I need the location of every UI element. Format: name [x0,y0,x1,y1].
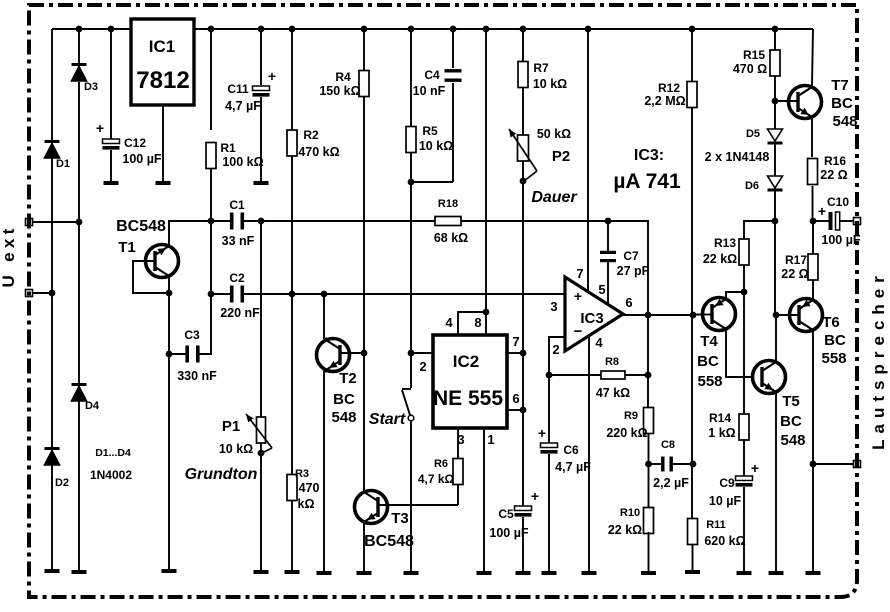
svg-text:548: 548 [331,409,356,426]
svg-text:22 Ω: 22 Ω [781,267,808,281]
svg-text:5: 5 [598,282,605,297]
svg-text:2: 2 [552,342,559,357]
svg-text:470 kΩ: 470 kΩ [298,145,339,159]
svg-text:R8: R8 [605,356,619,368]
svg-text:548: 548 [780,432,805,449]
svg-text:kΩ: kΩ [298,497,315,511]
svg-text:C1: C1 [229,198,245,212]
svg-text:558: 558 [697,373,722,390]
svg-text:22 kΩ: 22 kΩ [703,252,737,266]
svg-text:100 µF: 100 µF [489,526,529,540]
svg-text:T3: T3 [391,510,409,527]
svg-text:470: 470 [299,481,320,495]
svg-text:1: 1 [487,432,494,447]
svg-text:D1: D1 [56,158,70,170]
svg-text:Dauer: Dauer [531,189,577,206]
svg-text:220 kΩ: 220 kΩ [606,426,647,440]
svg-text:R14: R14 [709,411,731,425]
svg-text:C8: C8 [661,439,675,451]
svg-text:7: 7 [512,334,519,349]
svg-text:T7: T7 [831,77,849,94]
svg-text:620 kΩ: 620 kΩ [704,534,745,548]
svg-text:470 Ω: 470 Ω [733,62,767,76]
svg-text:4: 4 [445,315,453,330]
svg-text:R5: R5 [422,124,438,138]
svg-text:47 kΩ: 47 kΩ [596,386,630,400]
svg-text:33 nF: 33 nF [222,234,255,248]
svg-text:R12: R12 [658,81,680,95]
svg-text:D3: D3 [84,81,98,93]
svg-text:BC: BC [831,95,853,112]
svg-text:BC: BC [333,391,355,408]
svg-text:10 kΩ: 10 kΩ [533,77,567,91]
svg-text:7812: 7812 [136,67,189,94]
svg-text:+: + [574,288,582,304]
svg-text:1 kΩ: 1 kΩ [708,426,735,440]
svg-text:+: + [268,68,276,84]
svg-text:+: + [751,460,759,476]
svg-text:D6: D6 [745,180,759,192]
svg-text:C7: C7 [623,249,639,263]
svg-text:4,7 µF: 4,7 µF [555,460,591,474]
svg-text:22 kΩ: 22 kΩ [608,523,642,537]
svg-text:2: 2 [419,359,426,374]
svg-text:R16: R16 [824,154,846,168]
svg-text:R10: R10 [620,507,640,519]
svg-text:R18: R18 [438,198,458,210]
svg-text:+: + [818,203,826,219]
svg-text:+: + [538,425,546,441]
svg-text:R6: R6 [434,458,448,470]
svg-text:R7: R7 [533,61,549,75]
svg-text:4,7 kΩ: 4,7 kΩ [418,472,455,486]
svg-text:R1: R1 [220,141,236,155]
svg-text:C4: C4 [424,68,440,82]
svg-text:C9: C9 [719,476,735,490]
svg-text:Grundton: Grundton [185,466,258,483]
svg-text:C5: C5 [498,507,514,521]
svg-text:IC2: IC2 [453,352,479,371]
svg-text:NE 555: NE 555 [433,387,503,410]
svg-text:BC548: BC548 [364,533,414,550]
svg-text:R15: R15 [743,48,765,62]
svg-text:BC: BC [824,332,846,349]
svg-text:IC3:: IC3: [634,147,664,164]
svg-text:10 kΩ: 10 kΩ [219,442,253,456]
svg-text:−: − [574,323,583,340]
svg-text:548: 548 [832,113,857,130]
svg-text:T5: T5 [782,393,800,410]
svg-text:T2: T2 [339,370,357,387]
svg-text:2,2 µF: 2,2 µF [653,476,689,490]
svg-text:R9: R9 [624,410,638,422]
svg-text:R17: R17 [785,253,807,267]
svg-text:IC3: IC3 [580,310,603,327]
svg-text:Lautsprecher: Lautsprecher [869,270,888,450]
svg-text:6: 6 [625,295,632,310]
svg-text:558: 558 [821,350,846,367]
svg-text:R11: R11 [706,519,726,531]
svg-text:R13: R13 [714,236,736,250]
svg-text:BC: BC [780,413,802,430]
svg-text:D5: D5 [746,128,760,140]
svg-text:+: + [531,488,539,504]
svg-text:1N4002: 1N4002 [90,468,132,482]
svg-text:T4: T4 [700,333,718,350]
svg-text:68 kΩ: 68 kΩ [434,231,468,245]
svg-text:+: + [96,120,104,136]
svg-text:100 kΩ: 100 kΩ [222,155,263,169]
svg-text:D4: D4 [85,400,100,412]
svg-text:C10: C10 [827,195,849,209]
svg-text:4: 4 [595,335,603,350]
svg-text:7: 7 [576,266,583,281]
svg-text:P2: P2 [552,148,570,165]
svg-text:100 µF: 100 µF [122,152,162,166]
svg-text:330 nF: 330 nF [177,369,217,383]
svg-text:D2: D2 [55,477,69,489]
svg-text:P1: P1 [222,418,240,435]
svg-text:BC548: BC548 [116,218,166,235]
svg-text:10 µF: 10 µF [709,494,742,508]
svg-text:R2: R2 [303,128,319,142]
svg-text:10 nF: 10 nF [413,84,446,98]
svg-text:BC: BC [697,353,719,370]
svg-text:C12: C12 [124,136,146,150]
svg-text:4,7 µF: 4,7 µF [225,99,261,113]
svg-text:C6: C6 [563,443,579,457]
svg-text:T1: T1 [118,239,136,256]
svg-text:100 µF: 100 µF [821,233,861,247]
svg-text:C2: C2 [229,271,245,285]
svg-text:C11: C11 [227,82,249,96]
svg-text:U ext: U ext [0,224,18,287]
svg-text:3: 3 [457,432,464,447]
svg-text:µA 741: µA 741 [613,170,681,193]
svg-text:C3: C3 [184,328,200,342]
svg-text:R4: R4 [335,70,351,84]
svg-text:22 Ω: 22 Ω [820,168,847,182]
svg-text:3: 3 [550,299,557,314]
svg-text:27 pF: 27 pF [617,264,650,278]
svg-text:Start: Start [369,411,406,428]
svg-text:2,2 MΩ: 2,2 MΩ [644,94,685,108]
svg-text:T6: T6 [822,314,840,331]
svg-text:10 kΩ: 10 kΩ [419,139,453,153]
svg-text:R3: R3 [295,468,309,480]
svg-text:8: 8 [474,315,481,330]
svg-text:D1...D4: D1...D4 [95,447,131,459]
svg-text:150 kΩ: 150 kΩ [319,84,360,98]
svg-text:IC1: IC1 [149,37,175,56]
svg-text:6: 6 [512,391,519,406]
svg-text:220 nF: 220 nF [220,306,260,320]
svg-text:50 kΩ: 50 kΩ [537,127,571,141]
svg-text:2 x 1N4148: 2 x 1N4148 [705,150,770,164]
